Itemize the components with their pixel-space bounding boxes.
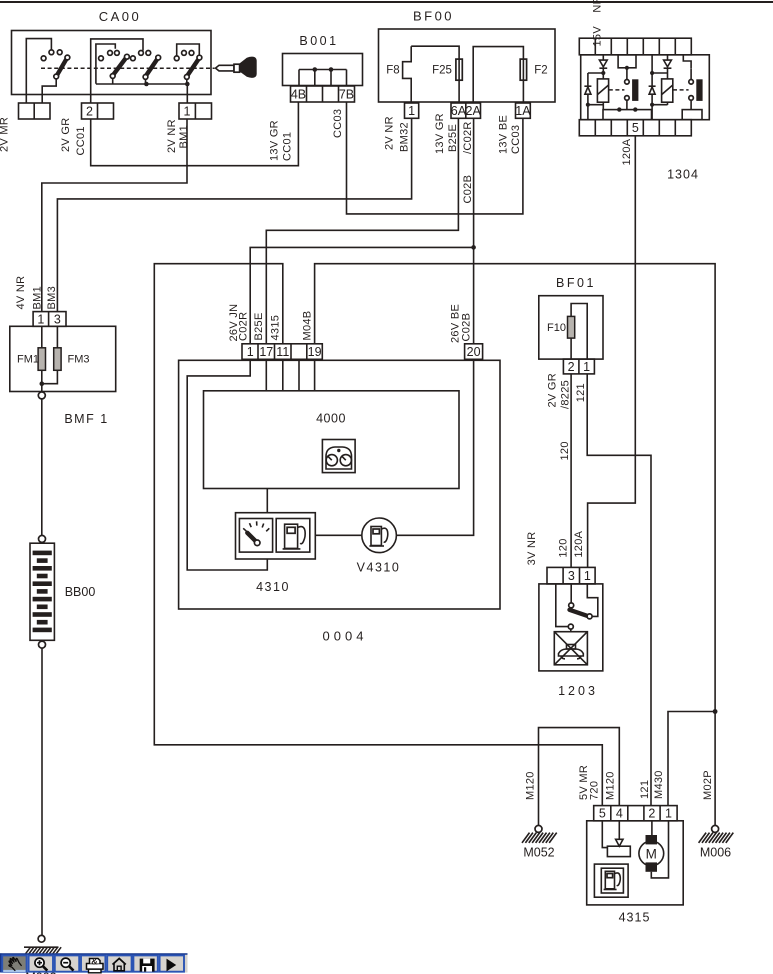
wire B001 internal bus: [299, 70, 347, 86]
svg-text:F25: F25: [432, 65, 452, 77]
wire B25E net BF00-6A to 0004-17: [266, 118, 458, 343]
switch module 1203 body: [539, 584, 603, 671]
wire M120 net 4315-4 to M052 ground: [539, 728, 620, 826]
icon fuel gauge 4310: [239, 519, 272, 553]
svg-text:BM32: BM32: [399, 122, 411, 152]
svg-text:4V NR: 4V NR: [15, 276, 27, 310]
connector circle BB00 top: [39, 535, 46, 542]
fuse FM1: [38, 348, 45, 371]
fuse F25: [456, 59, 462, 80]
wire C02B net BF00-2A to 0004-20: [473, 118, 475, 343]
icon fuel pump 4315: [594, 864, 628, 897]
wire 4000 to 4310: [266, 489, 268, 513]
icon fuel pump V4310: [369, 527, 387, 547]
fuse box BF00 body: [379, 29, 556, 102]
svg-text:20: 20: [467, 345, 481, 359]
toolbar button zoom out: [55, 955, 79, 971]
svg-text:4B: 4B: [291, 87, 306, 101]
wire 4315 pin1 to motor bottom: [651, 821, 668, 878]
connector 4315 pins 5 4 2 1: [594, 806, 677, 821]
svg-text:120: 120: [559, 441, 571, 460]
icon car symbol 1203: [559, 645, 584, 659]
svg-text:1: 1: [408, 104, 415, 118]
connector circle BMF1 output: [38, 392, 45, 399]
svg-text:1A: 1A: [515, 104, 531, 118]
svg-text:B25E: B25E: [253, 312, 265, 340]
wire 4315 pin5 to sender: [602, 821, 607, 848]
svg-text:CC03: CC03: [510, 125, 522, 154]
svg-text:2V NR: 2V NR: [384, 116, 396, 150]
toolbar button pan (selected): [2, 955, 26, 971]
svg-text:1203: 1203: [558, 684, 598, 698]
svg-text:V4310: V4310: [357, 561, 401, 575]
svg-text:4000: 4000: [316, 412, 346, 426]
svg-text:121: 121: [575, 383, 587, 402]
wire BF00 F2 branch: [473, 47, 523, 102]
relay 2 of 1304: [649, 55, 703, 120]
svg-text:11: 11: [276, 345, 289, 359]
wire BB00 to ground: [41, 648, 43, 935]
connector B001 pins 4B 7B: [291, 86, 355, 102]
svg-text:13V BE: 13V BE: [498, 115, 510, 154]
svg-text:2V NR: 2V NR: [166, 119, 178, 153]
relay box 1304 top connector row: [579, 38, 691, 55]
wire 4310 to V4310: [315, 534, 362, 536]
svg-text:2V GR: 2V GR: [547, 373, 559, 408]
svg-text:2V GR: 2V GR: [60, 117, 72, 152]
svg-text:F8: F8: [386, 65, 399, 77]
wire 15V NR top supply rail: [0, 1, 773, 3]
svg-text:M430: M430: [653, 770, 665, 799]
fuse F8 holder: [403, 46, 412, 102]
svg-text:BM1: BM1: [32, 286, 44, 310]
switch contact group 1 CA00 contacts: [41, 50, 70, 103]
fuse F10: [568, 316, 575, 338]
relay 1 of 1304: [584, 55, 638, 120]
wire CC01 net CA00-2 to B001-4B: [91, 102, 299, 166]
connector BF00 pin 1A: [515, 103, 531, 118]
svg-text:3V NR: 3V NR: [526, 531, 538, 565]
svg-text:3: 3: [568, 569, 575, 583]
svg-text:5: 5: [632, 121, 639, 135]
svg-text:120A: 120A: [573, 530, 585, 557]
connector BF00 pins 6A 2A: [451, 103, 482, 118]
switch contact group 3 CA00 contacts: [131, 51, 161, 85]
svg-text:17: 17: [259, 345, 273, 359]
battery BB00 plates: [33, 551, 52, 633]
icon fuel pump 4310: [276, 519, 310, 553]
switch 1203 lower contact: [556, 584, 574, 632]
junction dot 1304 tab b: [633, 107, 637, 111]
fuse box BF01 body: [539, 296, 603, 359]
fuse FM3: [54, 348, 61, 371]
svg-text:M120: M120: [605, 771, 617, 800]
wire M04B net 0004-19 to M006 ground: [315, 264, 715, 826]
toolbar button play: [160, 955, 184, 971]
junction dot C02R branch: [471, 245, 476, 250]
svg-text:6A: 6A: [451, 104, 467, 118]
wire 121 net BF01-1 to 4315-2: [587, 374, 651, 806]
svg-text:15V NR: 15V NR: [592, 0, 604, 47]
svg-text:13V GR: 13V GR: [434, 113, 446, 154]
svg-text:7B: 7B: [339, 87, 354, 101]
svg-text:121: 121: [639, 780, 651, 799]
svg-text:F2: F2: [534, 65, 547, 77]
svg-text:2V MR: 2V MR: [0, 117, 11, 152]
svg-text:M120: M120: [525, 771, 537, 800]
toolbar background: [0, 953, 188, 972]
connector BF00 pin 1: [405, 103, 419, 118]
svg-text:2A: 2A: [466, 104, 482, 118]
junction dot 1304 tab a: [617, 107, 621, 111]
svg-text:B001: B001: [299, 34, 338, 48]
svg-text:4315: 4315: [619, 911, 651, 925]
svg-text:CC03: CC03: [332, 109, 344, 138]
ground battery earth hatching: [24, 947, 61, 956]
connector CA00 pin 1: [179, 103, 212, 119]
toolbar button home: [107, 955, 131, 971]
svg-text:1: 1: [584, 569, 591, 583]
svg-text:BF00: BF00: [413, 9, 454, 24]
connector 0004 pins 1 17 11 19: [242, 344, 322, 360]
svg-text:2: 2: [568, 360, 575, 374]
junction dot B001 internal a: [313, 67, 318, 72]
svg-text:FM3: FM3: [68, 354, 90, 366]
switch contact group 2 CA00 contacts: [99, 51, 130, 84]
ground M006: [712, 825, 719, 832]
svg-text:BF01: BF01: [556, 276, 596, 290]
wire 4315 pin2 to motor: [651, 821, 653, 835]
wire C02R inside 0004 to 4310: [187, 359, 267, 570]
junction dot group 4 CA00: [185, 82, 190, 87]
svg-text:FM1: FM1: [17, 354, 39, 366]
gauge module 4310 body: [236, 513, 316, 559]
relay 2 bottom tab: [682, 110, 702, 120]
svg-text:19: 19: [308, 345, 322, 359]
svg-text:720: 720: [589, 781, 601, 800]
switch contact group 1 CA00 wiring: [26, 39, 51, 103]
svg-text:/8225: /8225: [560, 380, 572, 409]
svg-text:BM3: BM3: [46, 286, 58, 310]
svg-text:1: 1: [184, 104, 191, 118]
wire FM1 leads: [41, 326, 43, 392]
toolbar button print: [81, 955, 105, 971]
svg-text:BM1: BM1: [178, 125, 190, 149]
switch contact group 4 CA00 wiring: [177, 44, 200, 56]
svg-text:M006: M006: [700, 845, 731, 859]
svg-text:M: M: [646, 846, 657, 861]
fuel sender 4315 body: [587, 821, 684, 905]
svg-text:&: &: [91, 957, 98, 967]
svg-text:CC01: CC01: [75, 126, 87, 155]
connector CA00 pins A: [19, 103, 51, 119]
relay box 1304 bottom connector row pin 5: [579, 120, 691, 136]
wire 120 net BF01-2 to 1203-3: [570, 374, 572, 568]
relay 1 bottom tab: [603, 110, 652, 120]
wire FM3 leads: [42, 326, 58, 383]
toolbar button zoom in: [29, 955, 53, 971]
svg-text:4: 4: [616, 807, 623, 821]
junction box B001 body: [283, 54, 363, 86]
svg-text:120A: 120A: [621, 138, 633, 165]
svg-text:CA00: CA00: [99, 9, 142, 24]
junction dot BMF1: [40, 381, 45, 386]
svg-text:C02B: C02B: [461, 313, 473, 342]
svg-text:120: 120: [558, 538, 570, 557]
wire V4310 to 0004-20: [396, 359, 473, 535]
icon instrument cluster 4000: [322, 440, 355, 473]
svg-text:F10: F10: [547, 322, 566, 334]
svg-text:CC01: CC01: [282, 132, 294, 161]
ECU box 0004 body: [179, 360, 500, 609]
connector 0004 pin 20: [465, 344, 483, 360]
wire C02R branch to 0004-1: [250, 247, 473, 343]
junction dot M02P: [713, 709, 718, 714]
fuse holder BMF1 body: [10, 326, 116, 391]
wire CC03 net B001-7B to BF00-1A: [347, 102, 523, 214]
svg-text:1: 1: [665, 807, 672, 821]
switch contact group 2 CA00 wiring: [91, 39, 143, 103]
connector BMF1 pins 1 3: [33, 312, 66, 327]
svg-text:M052: M052: [523, 845, 554, 859]
svg-text:M02P: M02P: [702, 770, 714, 800]
svg-text:5: 5: [599, 807, 606, 821]
relay box 1304 body: [581, 55, 710, 120]
svg-text:1304: 1304: [667, 168, 699, 182]
junction dot group 3 CA00: [144, 82, 149, 87]
battery BB00 body: [30, 543, 54, 640]
svg-text:/C02R: /C02R: [462, 121, 474, 154]
wire BM3 net BF00-1 to BMF1-3: [57, 118, 411, 311]
key symbol CA00: [216, 57, 257, 78]
svg-text:B25E: B25E: [447, 124, 459, 152]
crossed load box 1203: [554, 632, 587, 665]
svg-text:C02R: C02R: [238, 312, 250, 341]
connector circle battery ground: [38, 935, 45, 942]
wire 0004 pins into 4000: [266, 359, 314, 391]
svg-text:BB00: BB00: [65, 585, 96, 599]
variable resistor sender 4315: [607, 821, 630, 857]
connector CA00 pin 2: [82, 103, 114, 119]
svg-text:BMF 1: BMF 1: [64, 412, 108, 426]
svg-text:1: 1: [583, 360, 590, 374]
instrument cluster 4000 body: [204, 391, 460, 489]
svg-text:1: 1: [247, 345, 254, 359]
svg-text:0004: 0004: [323, 629, 368, 644]
svg-text:M04B: M04B: [302, 311, 314, 341]
relay 2 top connection: [683, 55, 691, 68]
svg-text:4315: 4315: [270, 315, 282, 341]
svg-text:3: 3: [54, 312, 61, 326]
fuse F2: [520, 59, 526, 80]
svg-text:1: 1: [37, 312, 44, 326]
wire BF00 F25 branch: [411, 46, 459, 102]
ground M052: [535, 825, 542, 832]
svg-text:4310: 4310: [256, 580, 290, 594]
wire BMF1 to BB00: [41, 399, 43, 536]
wire 120A net 1304-5 to 1203-1: [588, 136, 636, 568]
relay 1 top tab: [618, 55, 636, 70]
wire BF01 internal: [571, 304, 587, 360]
connector 1203 pins 3 1: [547, 567, 595, 584]
svg-text:C02B: C02B: [462, 175, 474, 204]
ignition switch CA00 body: [12, 31, 212, 95]
svg-text:13V GR: 13V GR: [269, 120, 281, 161]
switch contact group 4 CA00 contacts: [174, 51, 202, 85]
junction dot B001 internal b: [329, 67, 334, 72]
switch 1203 contacts: [569, 584, 598, 619]
connector circle BB00 bottom: [39, 641, 46, 648]
svg-text:2: 2: [86, 104, 93, 118]
wire dashed actuator line CA00: [41, 67, 215, 69]
motor M 4315: [639, 835, 664, 872]
connector BF01 pins 2 1: [563, 359, 594, 374]
svg-text:2: 2: [648, 807, 655, 821]
wire 720 net 0004-11 to 4315-5: [154, 264, 602, 806]
toolbar button save: [133, 955, 157, 971]
wire CA00 internal bottom bus: [96, 84, 187, 103]
wire M430 net 4315-1 to M02P junction: [668, 712, 715, 806]
wire BM1 net CA00-1 to BMF1-1: [42, 119, 187, 312]
sensor V4310 circle: [362, 518, 397, 553]
